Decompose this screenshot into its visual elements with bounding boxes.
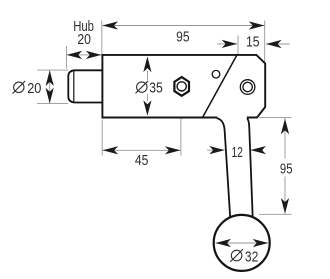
- dia32 dim line + arrows: [216, 242, 269, 244]
- dim line 45: [103, 149, 181, 151]
- diameter symbol dia20: [13, 81, 26, 94]
- ext line 95v top: [260, 116, 292, 118]
- hub 20 arrows: [67, 51, 83, 59]
- dia20 arrows: [46, 70, 54, 86]
- ext line 95v bottom: [259, 213, 292, 215]
- ext line dia20 bottom: [37, 103, 68, 105]
- dia35 dim line segments: [146, 71, 148, 81]
- svg-text:12: 12: [231, 144, 243, 161]
- ball knob: [214, 215, 270, 271]
- ext line dia20 top: [37, 69, 68, 71]
- svg-text:95: 95: [176, 28, 190, 45]
- hub chamfer edge line: [73, 71, 75, 103]
- dim line 95 top: [102, 25, 264, 27]
- dim line 95v lower segment: [284, 177, 286, 214]
- hex nut hole: [177, 82, 186, 91]
- dia35 arrows: [143, 57, 151, 73]
- ext line 95-right / 15-right: [264, 21, 266, 65]
- tail line 12-left arrow: [207, 149, 225, 151]
- lever arm: erase body bottom edge between fillets: [217, 116, 246, 120]
- tail line 15-right arrow: [266, 43, 290, 45]
- lever left edge: [217, 118, 230, 217]
- hub shaft: [68, 70, 103, 102]
- ext line hub-right / 95-left: [101, 21, 103, 55]
- svg-text:32: 32: [245, 249, 258, 266]
- hex nut: [174, 77, 189, 96]
- 15 arrows (outside pointing in): [222, 40, 238, 48]
- 12 arrows (outside pointing in): [209, 146, 225, 154]
- small hole: [212, 70, 220, 78]
- diameter symbol dia35: [136, 81, 149, 94]
- dim line hub 20: [66, 54, 101, 56]
- ext line 45-right (hex axis): [180, 97, 182, 156]
- svg-text:20: 20: [77, 31, 91, 48]
- svg-text:20: 20: [27, 80, 41, 97]
- ext line hub-left: [65, 46, 67, 69]
- svg-text:35: 35: [149, 80, 163, 97]
- svg-text:15: 15: [246, 34, 260, 51]
- diagonal line in body: [203, 55, 238, 118]
- tail line 15-left arrow: [217, 43, 237, 45]
- svg-text:45: 45: [135, 152, 149, 169]
- lever right edge: [247, 118, 253, 217]
- ext line 45-left: [101, 120, 103, 156]
- 45 arrows: [103, 146, 119, 154]
- tail line 12-right arrow: [251, 149, 263, 151]
- bushing inner circle: [243, 82, 252, 91]
- lever fill: [217, 117, 252, 221]
- dim line dia20: [49, 70, 51, 103]
- 95 top arrows: [102, 21, 118, 29]
- ext line 15-left: [237, 36, 239, 55]
- diameter symbol dia32: [230, 249, 243, 262]
- dim line 95v upper segment: [284, 118, 286, 159]
- bushing outer circle: [240, 80, 255, 95]
- svg-text:95: 95: [280, 160, 293, 177]
- 95v arrows: [281, 119, 289, 135]
- body: [102, 55, 265, 118]
